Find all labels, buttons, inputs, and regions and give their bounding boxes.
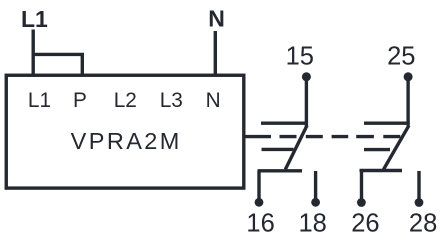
wire terminal 25 bbox=[406, 77, 409, 126]
contact 2 fixed bar bottom bbox=[360, 169, 403, 172]
node terminal 16 dot bbox=[255, 198, 264, 207]
svg-text:L1: L1 bbox=[21, 6, 48, 32]
svg-text:18: 18 bbox=[299, 209, 327, 237]
wire terminal 28 bbox=[417, 171, 420, 203]
contact 1 fixed bar middle bbox=[262, 148, 294, 151]
wire N supply bbox=[214, 31, 217, 76]
contact 1 movable arm diagonal bbox=[285, 126, 307, 170]
contact 1 fixed bar bottom bbox=[258, 169, 303, 172]
node terminal 26 dot bbox=[357, 198, 366, 207]
node terminal 28 dot bbox=[415, 198, 424, 207]
node terminal 15 dot bbox=[302, 72, 311, 81]
svg-text:28: 28 bbox=[409, 210, 437, 238]
wire terminal 26 bbox=[360, 171, 363, 203]
svg-text:L3: L3 bbox=[160, 89, 183, 112]
svg-text:N: N bbox=[208, 6, 225, 32]
contact 2 fixed bar top bbox=[364, 121, 410, 124]
wire L1 supply bbox=[32, 30, 35, 77]
wire terminal 18 bbox=[314, 171, 317, 202]
contact 2 movable arm diagonal bbox=[384, 126, 409, 170]
wire jumper L1 to P bbox=[32, 54, 83, 76]
node terminal 18 dot bbox=[311, 198, 320, 207]
svg-text:P: P bbox=[73, 89, 87, 112]
wire terminal 15 bbox=[305, 77, 308, 127]
node terminal 25 dot bbox=[404, 72, 413, 81]
mechanical linkage dashed line bbox=[246, 135, 401, 138]
svg-text:L2: L2 bbox=[114, 89, 137, 112]
contact 1 fixed bar top bbox=[261, 121, 308, 124]
svg-text:26: 26 bbox=[351, 210, 379, 238]
svg-text:VPRA2M: VPRA2M bbox=[71, 128, 182, 154]
relay box VPRA2M outline bbox=[6, 75, 244, 188]
svg-text:N: N bbox=[206, 89, 221, 112]
svg-text:15: 15 bbox=[286, 43, 314, 71]
svg-text:L1: L1 bbox=[28, 89, 51, 112]
contact 2 fixed bar middle bbox=[364, 148, 390, 151]
svg-text:16: 16 bbox=[246, 209, 274, 237]
svg-text:25: 25 bbox=[387, 43, 415, 71]
wire terminal 16 bbox=[257, 171, 260, 203]
